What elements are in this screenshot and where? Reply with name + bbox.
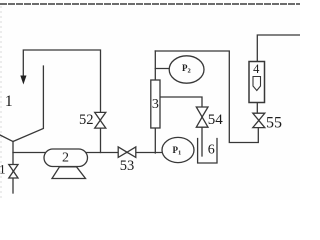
svg-text:54: 54 <box>208 112 224 128</box>
svg-text:6: 6 <box>208 143 215 158</box>
svg-text:53: 53 <box>120 158 135 174</box>
svg-text:3: 3 <box>152 97 159 112</box>
svg-text:4: 4 <box>253 62 260 76</box>
svg-text:2: 2 <box>62 151 69 166</box>
svg-text:52: 52 <box>79 112 94 128</box>
svg-text:1: 1 <box>5 93 13 110</box>
svg-text:1: 1 <box>0 162 6 177</box>
svg-text:55: 55 <box>266 114 282 131</box>
